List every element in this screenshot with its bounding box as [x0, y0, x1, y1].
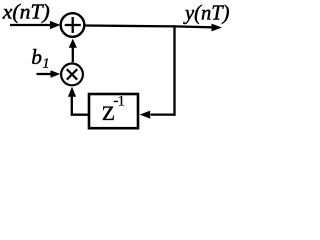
- svg-text:1: 1: [43, 57, 50, 72]
- svg-text:1: 1: [118, 94, 126, 110]
- svg-text:y(nT): y(nT): [183, 1, 229, 25]
- svg-text:x(nT): x(nT): [2, 0, 50, 24]
- svg-text:b: b: [31, 45, 42, 69]
